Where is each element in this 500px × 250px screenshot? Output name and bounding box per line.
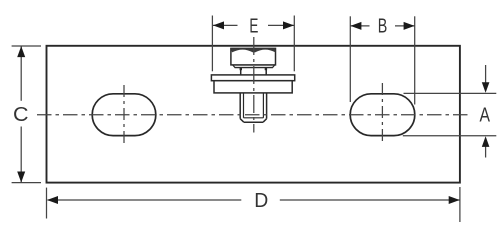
svg-text:D: D	[254, 190, 268, 212]
svg-text:A: A	[479, 104, 490, 126]
svg-text:E: E	[249, 15, 258, 37]
svg-text:C: C	[13, 104, 29, 126]
svg-text:B: B	[378, 16, 388, 38]
